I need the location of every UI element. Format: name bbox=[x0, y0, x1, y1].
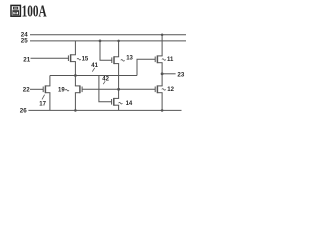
wire node 41 to T14 gate bbox=[99, 76, 112, 102]
tilde for Q12 bbox=[162, 89, 166, 91]
svg-text:17: 17 bbox=[39, 102, 46, 108]
svg-text:21: 21 bbox=[23, 56, 30, 63]
tilde for Q14 bbox=[119, 102, 123, 104]
pointer slash for 41 bbox=[92, 68, 95, 72]
junction dots bbox=[74, 33, 164, 111]
wire T13 drain to rail 25 bbox=[118, 41, 120, 57]
tilde for Q13 bbox=[121, 60, 125, 62]
wire input 21 bbox=[31, 57, 69, 59]
transistor Q15 bbox=[68, 54, 76, 62]
tilde for Q15 bbox=[77, 58, 81, 60]
wire node 42 horizontal bbox=[82, 88, 155, 90]
wire T12 source to rail 26 bbox=[161, 93, 163, 111]
wire T15 source to T19 drain bbox=[74, 62, 76, 86]
svg-text:11: 11 bbox=[167, 57, 174, 63]
wire T11 source to T12 drain bbox=[161, 63, 163, 86]
svg-text:22: 22 bbox=[23, 87, 30, 94]
wire T13 source to T14 drain bbox=[118, 64, 120, 99]
wire T15 drain to rail 25 bbox=[74, 41, 76, 55]
wire T16 drain riser bbox=[49, 76, 51, 86]
wire T19 source to rail 26 bbox=[74, 93, 76, 111]
rail 24 bbox=[30, 34, 186, 36]
rail 25 bbox=[30, 40, 186, 42]
svg-text:25: 25 bbox=[21, 38, 28, 45]
wire output 23 bbox=[162, 73, 176, 75]
pointer slash for 42 bbox=[103, 81, 105, 84]
svg-text:100A: 100A bbox=[22, 1, 47, 20]
wire node 41 horizontal bbox=[50, 75, 137, 77]
tilde for Q19 bbox=[65, 89, 69, 91]
svg-text:41: 41 bbox=[91, 63, 98, 69]
transistor Q16 bbox=[43, 85, 50, 93]
transistor Q19 (mirrored, gate on right) bbox=[75, 85, 82, 93]
tilde for Q11 bbox=[162, 59, 166, 61]
svg-text:12: 12 bbox=[167, 87, 174, 93]
svg-text:42: 42 bbox=[102, 77, 109, 83]
wire T13 gate from rail 25 bbox=[100, 41, 112, 60]
svg-text:19: 19 bbox=[58, 87, 65, 93]
svg-text:26: 26 bbox=[20, 108, 27, 115]
wire T11 drain to rail 24 bbox=[161, 35, 163, 56]
transistor Q13 bbox=[112, 56, 119, 64]
transistor Q12 bbox=[155, 85, 162, 93]
svg-text:15: 15 bbox=[82, 57, 89, 63]
wire node 41 to T11 gate bbox=[137, 59, 156, 75]
transistor Q14 bbox=[112, 98, 120, 106]
pointer slash for 17 bbox=[42, 95, 45, 100]
title hanzi 圖 bbox=[11, 5, 20, 16]
transistor Q11 bbox=[155, 55, 162, 63]
svg-text:14: 14 bbox=[126, 101, 133, 107]
wire T14 source to rail 26 bbox=[118, 105, 120, 110]
svg-text:23: 23 bbox=[177, 72, 184, 79]
svg-text:13: 13 bbox=[126, 56, 133, 62]
wire T16 source to rail 26 bbox=[49, 93, 51, 111]
wire input 22 bbox=[30, 88, 44, 90]
rail 26 bbox=[28, 109, 181, 111]
